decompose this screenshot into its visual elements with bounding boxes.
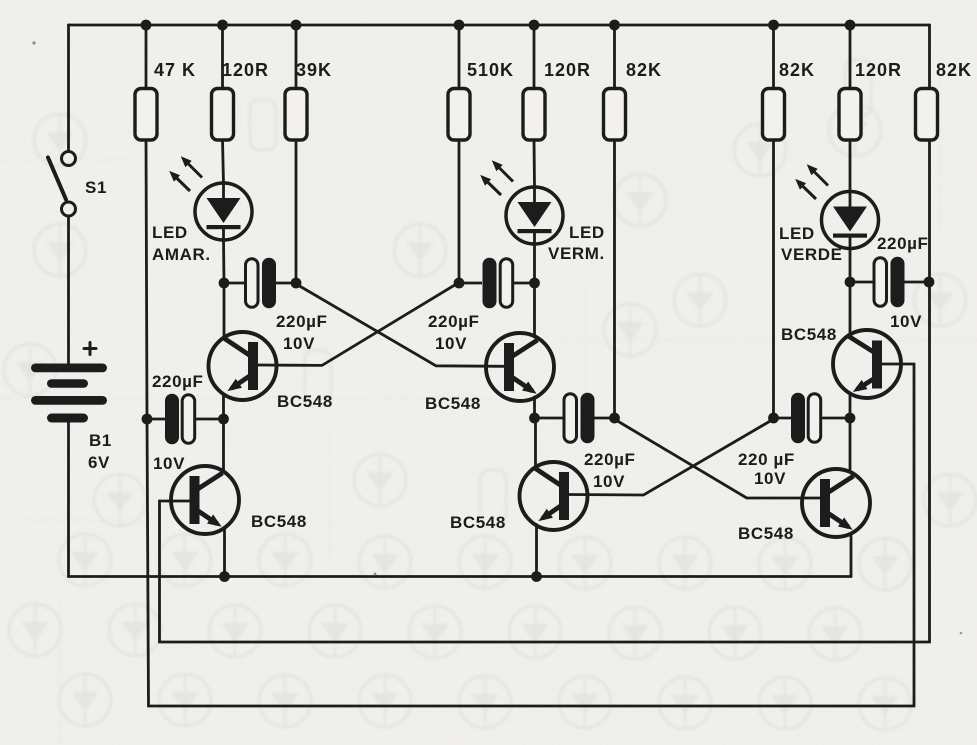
wire node to Q5 collector (849, 282, 852, 335)
svg-text:120R: 120R (222, 60, 269, 80)
transistor Q2 BC548 (171, 466, 239, 534)
svg-text:10V: 10V (593, 472, 625, 491)
wire column 82K-2 (772, 25, 775, 89)
wire switch to battery (67, 216, 70, 363)
wire 39K bottom to cap C1 node (295, 139, 298, 283)
wire LED VERM to node (533, 243, 536, 283)
svg-text:10V: 10V (754, 469, 786, 488)
svg-text:BC548: BC548 (738, 524, 794, 543)
resistor R7 82K (763, 89, 785, 141)
wire column 47K upper (145, 25, 148, 89)
capacitor C6 220uF (774, 393, 851, 444)
wire Q6 emitter to ground rail end (850, 534, 853, 577)
transistor Q3 BC548 (486, 333, 554, 401)
svg-text:82K: 82K (626, 60, 662, 80)
svg-text:AMAR.: AMAR. (152, 245, 211, 264)
svg-text:BC548: BC548 (251, 512, 307, 531)
resistor R1 47K (135, 89, 157, 141)
LED VERM symbol (506, 187, 563, 244)
svg-text:510K: 510K (467, 60, 514, 80)
paper speck (374, 573, 377, 576)
svg-text:LED: LED (779, 224, 815, 243)
wire 120R-3 to LED VERDE (849, 139, 852, 192)
resistor R5 120R (523, 89, 545, 141)
svg-text:10V: 10V (435, 334, 467, 353)
svg-text:LED: LED (569, 223, 605, 242)
LED VERDE light arrows (800, 169, 829, 200)
resistor R3 39K (285, 89, 307, 141)
svg-text:VERM.: VERM. (548, 244, 605, 263)
wire column 510K (458, 25, 461, 89)
svg-text:BC548: BC548 (781, 325, 837, 344)
svg-text:82K: 82K (936, 60, 972, 80)
svg-text:220µF: 220µF (276, 312, 328, 331)
svg-text:220µF: 220µF (584, 450, 636, 469)
capacitor C2 220uF (459, 258, 535, 309)
wire Q3 emitter to node (533, 397, 536, 418)
wire Q2 emitter to ground rail (223, 528, 226, 577)
battery B1 (31, 364, 107, 423)
Q1 base wire and cross wire to C2 node (258, 284, 457, 365)
svg-text:VERDE: VERDE (781, 245, 843, 264)
LED AMAR light arrows (174, 161, 203, 192)
svg-text:S1: S1 (85, 178, 107, 197)
capacitor C3 220uF (850, 257, 930, 308)
wire 510K bottom to cap C2 node (458, 139, 461, 283)
wire column 120R-3 (849, 25, 852, 89)
Q5 base wire to feedback W1 (881, 363, 915, 366)
wire 120R-2 to LED VERM (533, 139, 536, 187)
transistor Q4 BC548 (520, 462, 588, 530)
svg-text:120R: 120R (544, 60, 591, 80)
wire column 39K (295, 25, 298, 89)
wire column 82K-3 upper (928, 25, 931, 89)
svg-text:BC548: BC548 (450, 513, 506, 532)
switch S1 (48, 152, 76, 217)
transistor Q5 BC548 (833, 330, 901, 398)
capacitor C4 220uF (147, 394, 224, 445)
paper speck (32, 41, 35, 44)
wire column 120R-1 upper (221, 25, 224, 89)
wire node to Q2 collector (222, 419, 225, 472)
cross wire C5 node to Q6 base (615, 420, 820, 499)
wire LED VERDE to node (849, 248, 852, 282)
transistor Q1 BC548 (209, 332, 277, 400)
capacitor C5 220uF (535, 393, 615, 444)
left supply wire upper (67, 25, 70, 151)
long feedback wire W2: 82K-3 bottom, down, across, up to Q2 base (160, 139, 930, 642)
svg-text:10V: 10V (283, 334, 315, 353)
svg-text:BC548: BC548 (425, 394, 481, 413)
svg-text:120R: 120R (855, 60, 902, 80)
Q4 base wire and cross wire to C6 node (568, 419, 775, 496)
wire 120R-1 to LED AMAR (223, 139, 224, 184)
wire battery to bottom rail corner (67, 421, 70, 577)
svg-text:6V: 6V (88, 453, 110, 472)
paper speck (960, 632, 963, 635)
svg-text:82K: 82K (779, 60, 815, 80)
capacitor C1 220uF (224, 258, 296, 309)
battery plus sign (84, 343, 96, 355)
svg-text:BC548: BC548 (277, 392, 333, 411)
LED AMAR symbol (195, 183, 252, 240)
wire column 82K-1 (613, 25, 616, 89)
svg-text:220µF: 220µF (877, 234, 929, 253)
bottom ground rail (69, 575, 852, 578)
svg-text:10V: 10V (153, 454, 185, 473)
long feedback wire W1: 47K node down, across bottom, up to Q5 base (147, 364, 914, 706)
svg-text:47 K: 47 K (154, 60, 196, 80)
resistor R8 120R (839, 89, 861, 141)
svg-text:10V: 10V (890, 312, 922, 331)
svg-text:220µF: 220µF (152, 372, 204, 391)
transistor Q6 BC548 (802, 469, 870, 537)
wire 82K-1 bottom to cap C5 node (613, 139, 616, 418)
wire Q5 emitter to node (849, 393, 852, 418)
wire node to Q6 collector (849, 418, 852, 472)
wire node to Q3 collector (533, 283, 536, 337)
wire Q4 emitter to ground rail (535, 525, 538, 577)
resistor R6 82K (604, 89, 626, 141)
wire node to Q1 collector (223, 283, 226, 338)
svg-text:39K: 39K (296, 60, 332, 80)
resistor R2 120R (212, 89, 234, 141)
wire Q1 emitter to node (222, 394, 225, 419)
svg-text:220 µF: 220 µF (738, 450, 795, 469)
wire 82K-2 bottom to cap C6 node (772, 139, 775, 418)
cross wire C1 node to Q3 base (297, 285, 504, 367)
svg-text:220µF: 220µF (428, 312, 480, 331)
LED VERM light arrows (485, 165, 514, 196)
svg-text:LED: LED (152, 223, 188, 242)
resistor R4 510K (448, 89, 470, 141)
wire node to Q4 collector (534, 418, 537, 468)
svg-text:B1: B1 (89, 431, 112, 450)
LED VERDE symbol (822, 192, 879, 249)
top supply rail (69, 24, 930, 27)
wire column 120R-2 (533, 25, 536, 89)
resistor R9 82K (916, 89, 938, 141)
wire 47K bottom to cap C4 node (146, 139, 147, 419)
wire LED AMAR to node (222, 239, 225, 283)
